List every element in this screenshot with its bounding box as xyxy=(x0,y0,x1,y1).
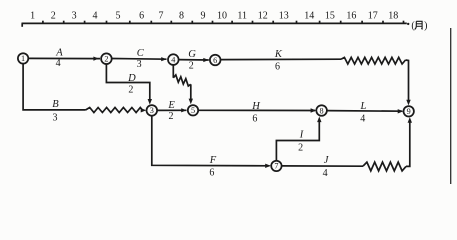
node number 6 xyxy=(213,56,217,65)
svg-text:2: 2 xyxy=(104,55,108,64)
label G/2 xyxy=(188,49,196,72)
node number 4 xyxy=(171,55,175,64)
wire: activity I path 7-8 xyxy=(276,117,321,161)
wire: activity J line 7-9 xyxy=(282,165,363,167)
node number 9 xyxy=(407,107,411,116)
wire: activity B path 1-3 xyxy=(23,64,85,110)
svg-text:4: 4 xyxy=(171,55,175,64)
wire: activity F path 3-7 xyxy=(152,116,271,168)
page right border xyxy=(450,28,452,184)
node 2 xyxy=(101,53,112,64)
svg-text:5: 5 xyxy=(116,11,121,22)
node 7 xyxy=(271,161,281,171)
ruler numbers 1-18 xyxy=(30,11,398,22)
label D/2 xyxy=(127,73,136,96)
svg-text:6: 6 xyxy=(209,168,214,179)
svg-text:C: C xyxy=(137,48,145,59)
wire: activity A arrow 1-2 xyxy=(28,57,100,61)
svg-text:1: 1 xyxy=(30,11,35,22)
node number 3 xyxy=(150,106,154,115)
wire: activity K line 6-9 xyxy=(221,58,342,60)
svg-text:8: 8 xyxy=(320,106,324,115)
svg-text:13: 13 xyxy=(279,11,289,22)
label I/2 xyxy=(298,130,304,154)
node number 7 xyxy=(274,162,278,171)
node 1 xyxy=(18,53,28,63)
wire: activity C arrow 2-4 xyxy=(112,57,167,61)
svg-text:D: D xyxy=(127,73,136,84)
svg-text:6: 6 xyxy=(139,11,144,22)
wire: activity L arrow 8-9 xyxy=(327,109,403,113)
wavy free-float of B xyxy=(86,108,147,113)
svg-text:4: 4 xyxy=(93,11,98,22)
node 9 xyxy=(404,106,414,116)
svg-text:2: 2 xyxy=(128,85,133,96)
label B/3 xyxy=(52,99,59,124)
svg-text:18: 18 xyxy=(388,11,398,22)
svg-text:3: 3 xyxy=(53,113,58,124)
svg-text:): ) xyxy=(424,20,427,31)
wire: activity G arrow 4-6 xyxy=(179,58,209,62)
svg-text:B: B xyxy=(52,99,59,110)
svg-text:12: 12 xyxy=(258,11,268,22)
node 6 xyxy=(210,55,221,66)
svg-text:3: 3 xyxy=(150,106,154,115)
wavy free-float of J xyxy=(363,117,412,171)
svg-text:6: 6 xyxy=(213,56,217,65)
label H/6 xyxy=(251,101,261,125)
svg-text:F: F xyxy=(209,155,217,166)
svg-text:15: 15 xyxy=(325,11,335,22)
label E/2 xyxy=(167,100,175,122)
wavy free-float of K xyxy=(341,57,411,105)
svg-text:6: 6 xyxy=(275,62,280,73)
node 8 xyxy=(316,105,327,116)
label F/6 xyxy=(209,155,217,179)
label K/6 xyxy=(274,49,283,73)
label A/4 xyxy=(55,48,63,70)
svg-text:H: H xyxy=(251,101,261,112)
svg-text:1: 1 xyxy=(21,54,25,63)
label L/4 xyxy=(359,101,366,125)
node 5 xyxy=(188,105,198,115)
svg-text:2: 2 xyxy=(51,11,56,22)
svg-text:A: A xyxy=(55,48,63,59)
ruler tick marks xyxy=(43,21,404,24)
svg-text:9: 9 xyxy=(407,107,411,116)
svg-text:17: 17 xyxy=(368,11,378,22)
svg-text:4: 4 xyxy=(56,58,61,69)
svg-text:10: 10 xyxy=(217,11,227,22)
label J/4 xyxy=(323,155,330,179)
node 3 xyxy=(147,105,158,116)
svg-text:6: 6 xyxy=(252,114,257,125)
svg-text:4: 4 xyxy=(360,114,365,125)
ruler unit label (month) xyxy=(411,20,427,31)
svg-text:2: 2 xyxy=(298,143,303,154)
svg-text:9: 9 xyxy=(201,11,206,22)
node 4 xyxy=(168,54,179,65)
node number 2 xyxy=(104,55,108,64)
wire: activity H arrow 5-8 xyxy=(198,108,316,112)
svg-text:(: ( xyxy=(411,20,415,31)
wire: activity E arrow 3-5 xyxy=(157,108,186,112)
svg-text:5: 5 xyxy=(191,106,195,115)
node number 8 xyxy=(320,106,324,115)
node number 1 xyxy=(21,54,25,63)
svg-text:K: K xyxy=(274,49,283,60)
svg-text:G: G xyxy=(188,49,196,60)
wavy wait line 4-5 xyxy=(173,65,193,104)
svg-text:J: J xyxy=(324,155,330,166)
svg-text:L: L xyxy=(359,101,366,112)
svg-text:E: E xyxy=(167,100,175,111)
svg-text:7: 7 xyxy=(274,162,278,171)
wire: activity D path 2-3 xyxy=(106,64,152,105)
svg-text:11: 11 xyxy=(237,11,247,22)
svg-text:2: 2 xyxy=(189,61,194,72)
svg-text:8: 8 xyxy=(179,11,184,22)
svg-text:I: I xyxy=(299,130,304,141)
svg-text:14: 14 xyxy=(304,11,314,22)
svg-text:7: 7 xyxy=(159,11,164,22)
svg-text:3: 3 xyxy=(72,11,77,22)
svg-text:3: 3 xyxy=(137,59,142,70)
node number 5 xyxy=(191,106,195,115)
time-scale ruler line xyxy=(22,23,410,27)
svg-text:16: 16 xyxy=(346,11,356,22)
label C/3 xyxy=(137,48,145,70)
svg-text:2: 2 xyxy=(169,111,174,122)
svg-text:4: 4 xyxy=(323,168,328,179)
